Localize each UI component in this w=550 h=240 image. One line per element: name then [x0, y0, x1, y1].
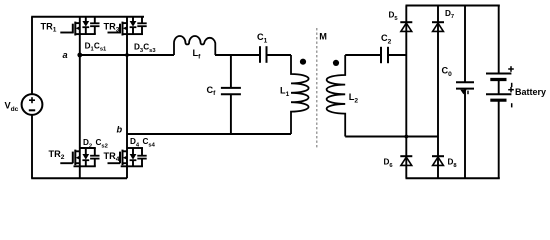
inductor L2 (secondary winding): [327, 55, 346, 137]
rectifier top rail: [406, 5, 500, 7]
TR4 drain bus: [127, 147, 143, 149]
inductor L1 (primary winding): [291, 55, 309, 134]
battery cell 2 tick: [511, 103, 513, 107]
crossing blob at leg2: [125, 53, 129, 57]
L2 polarity dot: [333, 60, 339, 66]
wire node a to Lf: [80, 54, 174, 56]
TR2 drain bus: [80, 147, 96, 149]
wire from Vdc top to top rail: [31, 17, 33, 94]
battery cell 1 short plate: [490, 78, 506, 81]
rectifier bottom rail: [406, 177, 500, 179]
transistor TR1: [60, 32, 73, 34]
voltage source minus sign: [29, 109, 35, 111]
svg-text:M: M: [319, 31, 327, 41]
capacitor C1: [259, 46, 261, 63]
capacitor Cs1: [94, 17, 96, 24]
top rail of inverter: [31, 16, 144, 18]
capacitor Cf branch top lead: [230, 55, 232, 88]
inverter leg 1 lower (node a to TR2 and rail): [79, 55, 81, 178]
capacitor Cs4: [141, 148, 143, 156]
battery cell 1 plus: [510, 66, 512, 72]
battery cell 2 plus: [510, 87, 512, 93]
crossing blob at rectifier left leg: [404, 135, 408, 139]
diode D6: [400, 155, 412, 157]
voltage source Vdc circle: [22, 94, 43, 115]
capacitor Cs2: [94, 148, 96, 156]
diode D8: [432, 155, 444, 157]
wire C1 to L1: [267, 54, 292, 56]
L1 polarity dot: [300, 59, 306, 65]
diode D2: [85, 148, 87, 154]
wire L2 top to C2: [345, 54, 381, 56]
diode D4: [132, 148, 134, 154]
inductor Lf: [174, 36, 215, 55]
voltage source plus sign: [31, 97, 33, 103]
capacitor Cf: [221, 87, 241, 89]
capacitor C0 polarity arrow: [460, 90, 466, 95]
battery cell 2 short plate: [490, 99, 506, 102]
bottom rail of inverter: [31, 177, 127, 179]
wire from Vdc bottom to bottom rail: [31, 115, 33, 178]
capacitor C0 bottom lead: [464, 89, 466, 179]
capacitor C0: [456, 81, 474, 83]
capacitor C2: [380, 47, 382, 63]
transistor TR3: [108, 32, 121, 34]
battery bottom lead: [498, 100, 500, 178]
TR2 source bus: [74, 165, 96, 167]
diode D3: [132, 17, 134, 21]
diode D1: [85, 17, 87, 21]
inverter leg 1 upper (TR1 drain-source): [79, 17, 81, 55]
wire C2 to rectifier: [388, 54, 406, 56]
TR1 source bus: [80, 33, 96, 35]
TR4 source bus: [121, 165, 143, 167]
rectifier right leg: [437, 6, 439, 179]
battery cell 2 long plate: [486, 93, 511, 95]
battery cell 1 long plate: [486, 73, 511, 75]
svg-text:a: a: [63, 50, 68, 60]
svg-text:b: b: [117, 125, 123, 135]
transistor TR2: [60, 162, 73, 164]
rectifier left leg: [405, 6, 407, 179]
inverter leg 2 (TR3 drain to node b to TR4): [126, 17, 128, 179]
capacitor Cs3: [141, 17, 143, 24]
transistor TR4: [108, 162, 121, 164]
svg-text:Battery: Battery: [515, 87, 546, 97]
node a junction dot: [77, 53, 82, 58]
coupling M dashed line: [316, 28, 318, 149]
diode D7: [432, 21, 444, 23]
battery cell 1 tick: [511, 83, 513, 87]
capacitor C0 polarity tick: [467, 91, 469, 95]
capacitor Cf bottom lead: [230, 94, 232, 134]
battery top lead: [498, 6, 500, 74]
capacitor C0 top lead: [464, 6, 466, 83]
battery middle lead: [498, 80, 500, 95]
wire L2 bottom to rectifier: [345, 136, 438, 138]
TR3 source bus: [127, 33, 143, 35]
wire Lf to C1: [215, 54, 260, 56]
diode D5: [400, 21, 412, 23]
wire node b to L1 bottom: [127, 133, 291, 135]
